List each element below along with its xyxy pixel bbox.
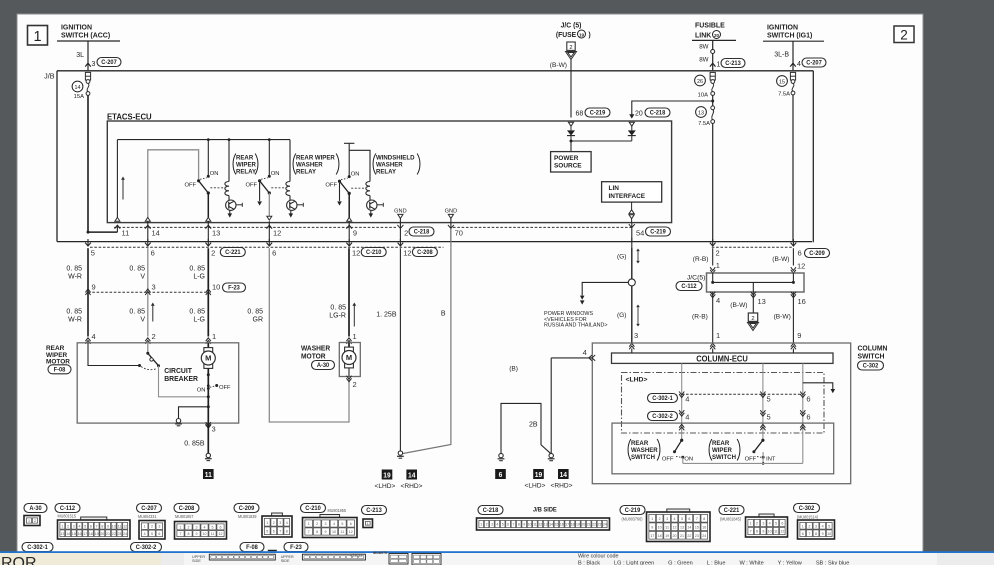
svg-text:MOTOR: MOTOR (301, 353, 326, 360)
svg-text:5: 5 (91, 248, 95, 257)
svg-text:2: 2 (486, 523, 488, 527)
svg-text:5: 5 (767, 413, 771, 422)
svg-text:16: 16 (702, 525, 706, 529)
svg-text:C-221: C-221 (225, 250, 241, 256)
svg-text:(B-W): (B-W) (730, 302, 747, 309)
svg-text:7: 7 (96, 524, 98, 528)
svg-text:): ) (588, 32, 590, 39)
svg-text:COLUMN: COLUMN (858, 345, 888, 352)
svg-text:12: 12 (349, 530, 353, 534)
svg-text:SWITCH: SWITCH (631, 454, 655, 461)
svg-text:6: 6 (806, 413, 810, 422)
svg-text:7.5A: 7.5A (698, 121, 710, 127)
svg-text:3L-B: 3L-B (774, 52, 789, 59)
svg-text:8: 8 (316, 530, 318, 534)
svg-text:(FUSE: (FUSE (556, 32, 577, 39)
svg-text:<LHD>: <LHD> (525, 483, 546, 490)
svg-text:14: 14 (560, 472, 567, 479)
svg-text:3: 3 (212, 425, 216, 434)
svg-text:18: 18 (571, 523, 575, 527)
svg-text:2: 2 (404, 229, 408, 238)
svg-text:C-208: C-208 (417, 250, 433, 256)
svg-text:11: 11 (122, 229, 130, 238)
svg-text:10: 10 (203, 532, 207, 536)
svg-text:C-302: C-302 (799, 506, 815, 512)
svg-text:10: 10 (332, 530, 336, 534)
svg-text:8: 8 (286, 529, 288, 533)
svg-text:SWITCH (IG1): SWITCH (IG1) (767, 31, 812, 39)
svg-text:2: 2 (751, 316, 754, 322)
svg-text:5: 5 (681, 517, 683, 521)
svg-text:1: 1 (802, 524, 804, 528)
svg-text:4: 4 (583, 348, 587, 357)
svg-text:0. 85: 0. 85 (129, 266, 145, 273)
svg-text:C-302-1: C-302-1 (652, 396, 673, 402)
svg-text:14: 14 (75, 85, 81, 91)
svg-text:F-23: F-23 (290, 545, 302, 551)
svg-text:14: 14 (66, 532, 70, 536)
svg-text:(MU801845): (MU801845) (720, 516, 742, 521)
svg-text:LINK: LINK (695, 31, 712, 39)
svg-text:5: 5 (266, 529, 268, 533)
svg-text:SIDE: SIDE (192, 559, 201, 563)
svg-text:14: 14 (408, 472, 415, 479)
svg-text:6: 6 (272, 248, 276, 257)
svg-text:C-210: C-210 (366, 250, 382, 256)
svg-text:0. 85: 0. 85 (330, 305, 346, 312)
svg-text:13: 13 (758, 297, 766, 306)
svg-text:OFF: OFF (246, 182, 258, 188)
svg-text:(MU801514): (MU801514) (797, 514, 819, 519)
svg-text:4: 4 (496, 523, 498, 527)
svg-text:3: 3 (196, 525, 198, 529)
svg-text:7: 7 (808, 532, 810, 536)
svg-text:7: 7 (750, 530, 752, 534)
svg-text:26: 26 (697, 79, 703, 85)
svg-text:1. 25B: 1. 25B (376, 312, 397, 319)
svg-text:W-R: W-R (68, 317, 82, 324)
svg-text:20: 20 (673, 534, 677, 538)
svg-text:5: 5 (151, 532, 153, 536)
svg-text:ON: ON (684, 457, 693, 463)
svg-text:9: 9 (196, 532, 198, 536)
svg-text:17: 17 (83, 532, 87, 536)
svg-text:12: 12 (123, 524, 127, 528)
svg-text:ON: ON (210, 171, 219, 177)
svg-text:3: 3 (92, 61, 96, 68)
svg-text:MU8076: MU8076 (373, 551, 387, 555)
svg-text:16: 16 (560, 523, 564, 527)
svg-text:3: 3 (634, 331, 638, 340)
svg-text:14: 14 (152, 229, 160, 238)
svg-text:0. 85: 0. 85 (66, 266, 82, 273)
svg-text:17: 17 (565, 523, 569, 527)
svg-text:19: 19 (95, 532, 99, 536)
svg-text:C-302-2: C-302-2 (136, 545, 157, 551)
svg-text:12: 12 (219, 532, 223, 536)
svg-text:3: 3 (152, 283, 156, 292)
svg-text:19: 19 (665, 534, 669, 538)
svg-text:8: 8 (815, 532, 817, 536)
svg-text:V: V (140, 317, 145, 324)
svg-text:C-221: C-221 (724, 508, 740, 514)
svg-text:INT: INT (766, 457, 776, 463)
svg-text:RELAY: RELAY (236, 168, 257, 175)
svg-text:6: 6 (151, 248, 155, 257)
svg-text:15A: 15A (74, 94, 84, 100)
svg-text:2: 2 (211, 248, 215, 257)
svg-text:(G): (G) (617, 312, 627, 319)
svg-text:C-302: C-302 (863, 364, 879, 370)
svg-text:2: 2 (569, 45, 572, 51)
svg-text:4: 4 (144, 532, 146, 536)
svg-text:4: 4 (822, 524, 824, 528)
svg-text:24: 24 (603, 523, 607, 527)
svg-text:1: 1 (308, 522, 310, 526)
svg-text:2: 2 (188, 525, 190, 529)
svg-text:12: 12 (797, 262, 805, 271)
svg-text:INTERFACE: INTERFACE (609, 193, 646, 200)
svg-text:2: 2 (659, 517, 661, 521)
svg-text:3: 3 (73, 524, 75, 528)
svg-text:(B-W): (B-W) (774, 314, 791, 321)
svg-text:9: 9 (651, 525, 653, 529)
svg-text:8: 8 (703, 517, 705, 521)
svg-text:C-209: C-209 (809, 251, 825, 257)
svg-text:2: 2 (34, 519, 36, 523)
svg-text:F-08: F-08 (246, 545, 258, 551)
svg-text:20: 20 (714, 33, 720, 38)
svg-text:20: 20 (581, 523, 585, 527)
svg-text:1: 1 (716, 331, 720, 340)
svg-text:4: 4 (769, 522, 771, 526)
svg-text:4: 4 (685, 395, 689, 404)
svg-text:7: 7 (308, 530, 310, 534)
svg-text:F-08: F-08 (54, 367, 66, 373)
svg-text:C-219: C-219 (625, 508, 641, 514)
svg-text:2: 2 (900, 28, 908, 43)
svg-text:9: 9 (107, 524, 109, 528)
svg-text:GND: GND (394, 209, 406, 215)
svg-text:3: 3 (279, 521, 281, 525)
svg-text:10: 10 (212, 283, 220, 292)
svg-text:1: 1 (212, 332, 216, 341)
svg-text:17: 17 (650, 534, 654, 538)
svg-text:ROR: ROR (1, 555, 37, 565)
svg-text:9: 9 (762, 530, 764, 534)
svg-text:6: 6 (798, 248, 802, 257)
svg-text:23: 23 (117, 532, 121, 536)
svg-text:1: 1 (28, 519, 30, 523)
svg-text:A-30: A-30 (317, 363, 330, 369)
svg-text:8: 8 (188, 532, 190, 536)
svg-text:11: 11 (533, 523, 537, 527)
svg-text:15: 15 (554, 523, 558, 527)
svg-text:Wire colour code: Wire colour code (578, 554, 618, 560)
svg-text:OFF: OFF (185, 182, 197, 188)
svg-text:1: 1 (367, 522, 369, 526)
svg-text:9: 9 (822, 532, 824, 536)
svg-text:6: 6 (781, 522, 783, 526)
svg-text:12: 12 (538, 523, 542, 527)
svg-text:6: 6 (688, 517, 690, 521)
svg-text:3: 3 (158, 525, 160, 529)
svg-text:6: 6 (350, 522, 352, 526)
svg-text:8: 8 (101, 524, 103, 528)
svg-text:11: 11 (205, 472, 212, 479)
svg-text:BREAKER: BREAKER (164, 376, 198, 383)
svg-text:C-210: C-210 (305, 506, 321, 512)
svg-text:SIDE: SIDE (281, 559, 290, 563)
svg-text:6: 6 (802, 532, 804, 536)
svg-text:#32011: #32011 (350, 552, 363, 557)
svg-text:1: 1 (353, 332, 357, 341)
svg-text:C-218: C-218 (414, 230, 430, 236)
svg-text:11: 11 (211, 532, 215, 536)
svg-text:ON: ON (197, 388, 206, 394)
svg-text:GND: GND (445, 209, 457, 215)
svg-text:8: 8 (756, 530, 758, 534)
svg-text:C-218: C-218 (483, 508, 499, 514)
svg-text:6: 6 (499, 472, 503, 479)
svg-text:C-302-1: C-302-1 (27, 545, 48, 551)
svg-text:WASHER: WASHER (301, 345, 330, 352)
svg-text:(G): (G) (617, 254, 627, 261)
svg-text:SOURCE: SOURCE (554, 162, 582, 169)
svg-text:(B-W): (B-W) (772, 256, 789, 263)
svg-text:RELAY: RELAY (376, 168, 397, 175)
svg-text:4: 4 (716, 296, 720, 305)
svg-text:8W: 8W (699, 57, 708, 64)
svg-text:M: M (346, 353, 352, 362)
svg-text:13: 13 (60, 532, 64, 536)
svg-text:IGNITION: IGNITION (61, 23, 92, 31)
svg-text:11: 11 (665, 525, 669, 529)
svg-text:4: 4 (78, 524, 80, 528)
svg-text:8: 8 (518, 523, 520, 527)
svg-text:20: 20 (635, 111, 643, 118)
svg-text:FUSIBLE: FUSIBLE (695, 21, 725, 29)
svg-text:13: 13 (680, 525, 684, 529)
svg-text:2: 2 (152, 332, 156, 341)
svg-text:19: 19 (383, 472, 390, 479)
svg-text:4: 4 (685, 413, 689, 422)
svg-text:A-30: A-30 (29, 506, 42, 512)
svg-text:(B): (B) (509, 366, 518, 373)
svg-text:22: 22 (592, 523, 596, 527)
svg-text:23: 23 (597, 523, 601, 527)
svg-text:21: 21 (587, 523, 591, 527)
svg-text:(MU803766): (MU803766) (622, 516, 644, 521)
svg-text:10: 10 (768, 530, 772, 534)
svg-text:13: 13 (212, 229, 220, 238)
svg-text:10A: 10A (698, 93, 708, 99)
svg-text:C-302-2: C-302-2 (652, 414, 673, 420)
svg-text:19: 19 (576, 523, 580, 527)
svg-text:8W: 8W (699, 44, 708, 51)
svg-text:3L: 3L (76, 52, 84, 59)
svg-text:5: 5 (767, 395, 771, 404)
svg-text:C-207: C-207 (101, 60, 117, 66)
svg-text:<RHD>: <RHD> (551, 483, 573, 490)
svg-text:19: 19 (579, 32, 585, 37)
svg-text:2: 2 (756, 522, 758, 526)
svg-text:6: 6 (158, 532, 160, 536)
svg-text:5: 5 (775, 522, 777, 526)
svg-text:F-23: F-23 (228, 286, 240, 292)
svg-text:2: 2 (353, 380, 357, 389)
svg-text:W-R: W-R (68, 274, 82, 281)
svg-text:MU801839: MU801839 (238, 514, 257, 519)
svg-text:MU801857: MU801857 (175, 514, 194, 519)
svg-text:0. 85B: 0. 85B (184, 441, 205, 448)
svg-text:9: 9 (797, 331, 801, 340)
svg-text:2B: 2B (529, 422, 538, 429)
svg-text:4: 4 (797, 61, 801, 68)
svg-text:9: 9 (325, 530, 327, 534)
svg-text:OFF: OFF (745, 457, 757, 463)
svg-text:24: 24 (702, 534, 706, 538)
svg-text:M: M (205, 354, 211, 363)
svg-text:2: 2 (151, 525, 153, 529)
svg-text:9: 9 (353, 229, 357, 238)
svg-text:<LHD>: <LHD> (626, 377, 648, 384)
svg-text:C-219: C-219 (590, 111, 606, 117)
svg-text:4: 4 (204, 525, 206, 529)
svg-text:6: 6 (806, 395, 810, 404)
svg-text:2: 2 (316, 522, 318, 526)
svg-text:11: 11 (341, 530, 345, 534)
svg-text:12: 12 (673, 525, 677, 529)
svg-text:2: 2 (808, 524, 810, 528)
svg-text:V: V (140, 274, 145, 281)
svg-text:1: 1 (716, 261, 720, 270)
svg-text:OFF: OFF (325, 183, 337, 189)
svg-text:J/C(5): J/C(5) (687, 275, 706, 282)
svg-text:21: 21 (106, 532, 110, 536)
svg-text:5: 5 (84, 524, 86, 528)
svg-text:54: 54 (636, 229, 644, 238)
svg-text:0. 85: 0. 85 (66, 309, 82, 316)
svg-text:24: 24 (123, 532, 127, 536)
svg-text:5: 5 (828, 524, 830, 528)
svg-text:3: 3 (762, 522, 764, 526)
svg-text:19: 19 (535, 472, 542, 479)
svg-text:70: 70 (455, 229, 463, 238)
svg-text:RUSSIA AND THAILAND>: RUSSIA AND THAILAND> (544, 322, 608, 328)
svg-text:CIRCUIT: CIRCUIT (164, 368, 192, 375)
svg-text:1: 1 (266, 521, 268, 525)
svg-text:14: 14 (549, 523, 553, 527)
svg-text:LIN: LIN (609, 185, 620, 192)
svg-text:(R-B): (R-B) (693, 256, 709, 263)
svg-text:C-207: C-207 (806, 61, 822, 67)
svg-text:15: 15 (72, 532, 76, 536)
svg-text:14: 14 (687, 525, 691, 529)
svg-text:6: 6 (90, 524, 92, 528)
svg-text:C-112: C-112 (60, 506, 76, 512)
svg-text:13: 13 (544, 523, 548, 527)
svg-text:68: 68 (576, 111, 584, 118)
svg-text:10: 10 (827, 532, 831, 536)
svg-text:MU804331: MU804331 (138, 514, 157, 519)
svg-text:L-G: L-G (193, 274, 205, 281)
svg-text:2: 2 (273, 521, 275, 525)
svg-text:C-112: C-112 (681, 284, 697, 290)
svg-text:ON: ON (351, 172, 360, 178)
svg-text:9: 9 (92, 283, 96, 292)
svg-text:L-G: L-G (193, 317, 205, 324)
svg-text:<LHD>: <LHD> (375, 483, 396, 490)
svg-text:B: B (441, 311, 446, 318)
svg-text:10: 10 (658, 525, 662, 529)
svg-text:7: 7 (512, 523, 514, 527)
svg-text:7: 7 (279, 529, 281, 533)
svg-text:7.5A: 7.5A (778, 92, 790, 98)
svg-text:22: 22 (112, 532, 116, 536)
svg-text:4: 4 (286, 521, 288, 525)
svg-text:6: 6 (220, 525, 222, 529)
svg-text:IGNITION: IGNITION (767, 23, 798, 31)
svg-text:12: 12 (780, 530, 784, 534)
svg-text:3: 3 (325, 522, 327, 526)
svg-text:23: 23 (695, 534, 699, 538)
svg-text:9: 9 (523, 523, 525, 527)
svg-text:0. 85: 0. 85 (129, 309, 145, 316)
svg-text:18: 18 (658, 534, 662, 538)
svg-text:20: 20 (100, 532, 104, 536)
svg-text:4: 4 (674, 517, 676, 521)
svg-text:OFF: OFF (662, 457, 674, 463)
svg-text:0. 85: 0. 85 (247, 309, 263, 316)
svg-text:11: 11 (118, 524, 122, 528)
svg-text:7: 7 (180, 532, 182, 536)
svg-text:J/C (5): J/C (5) (561, 22, 582, 29)
svg-text:0. 85: 0. 85 (189, 266, 205, 273)
svg-text:C-218: C-218 (650, 111, 666, 117)
svg-text:(B-W): (B-W) (550, 62, 567, 69)
svg-text:16: 16 (798, 297, 806, 306)
svg-text:12: 12 (273, 229, 281, 238)
svg-text:MU801515: MU801515 (58, 513, 77, 518)
svg-text:15: 15 (695, 525, 699, 529)
svg-text:C-219: C-219 (650, 230, 666, 236)
svg-text:6: 6 (507, 523, 509, 527)
svg-text:15: 15 (779, 80, 785, 86)
svg-text:1: 1 (651, 517, 653, 521)
svg-text:J/B SIDE: J/B SIDE (533, 507, 557, 513)
svg-text:LG-R: LG-R (329, 313, 346, 320)
svg-text:6: 6 (273, 529, 275, 533)
svg-text:4: 4 (92, 332, 96, 341)
svg-text:<RHD>: <RHD> (401, 483, 423, 490)
svg-text:3: 3 (666, 517, 668, 521)
svg-text:12: 12 (352, 248, 360, 257)
svg-text:16: 16 (77, 532, 81, 536)
svg-text:11: 11 (774, 530, 778, 534)
svg-text:ETACS-ECU: ETACS-ECU (107, 112, 152, 121)
svg-text:5: 5 (212, 525, 214, 529)
svg-text:POWER: POWER (554, 155, 579, 162)
svg-text:C-209: C-209 (239, 506, 255, 512)
svg-text:C-213: C-213 (366, 508, 382, 514)
svg-text:1: 1 (144, 525, 146, 529)
svg-text:1: 1 (717, 62, 721, 69)
svg-text:13: 13 (698, 111, 704, 117)
svg-text:J/B: J/B (44, 72, 55, 81)
svg-text:1: 1 (33, 29, 41, 45)
svg-text:5: 5 (502, 523, 504, 527)
